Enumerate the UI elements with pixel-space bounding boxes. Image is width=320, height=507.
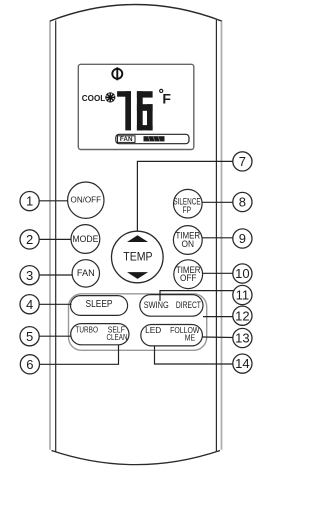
remote bottom arc — [52, 451, 221, 465]
svg-text:8: 8 — [239, 195, 246, 210]
svg-text:12: 12 — [235, 308, 249, 323]
svg-text:10: 10 — [235, 266, 249, 281]
svg-text:1: 1 — [26, 194, 33, 209]
callout line 14 — [155, 346, 233, 364]
svg-text:OFF: OFF — [180, 273, 197, 284]
button FAN — [72, 260, 99, 287]
button TIMER ON — [173, 226, 202, 255]
remote body outer gray outline — [50, 20, 222, 450]
svg-text:SLEEP: SLEEP — [86, 299, 113, 310]
svg-text:ON: ON — [182, 239, 195, 250]
callout circle 7 — [233, 152, 252, 171]
callout line 3 — [39, 274, 72, 276]
callout line 4 — [39, 303, 71, 305]
seven-segment digit 6 — [137, 91, 153, 130]
callout circle 1 — [20, 192, 39, 211]
degree F unit — [160, 89, 172, 106]
svg-text:F: F — [162, 91, 171, 107]
remote top arc — [50, 5, 222, 22]
callout circle 14 — [233, 354, 252, 373]
svg-text:5: 5 — [26, 329, 33, 344]
svg-text:TURBO: TURBO — [75, 325, 98, 335]
button SILENCE FP — [173, 189, 202, 218]
button TEMP — [112, 231, 164, 283]
svg-text:MODE: MODE — [72, 234, 98, 244]
svg-text:9: 9 — [239, 231, 246, 246]
power icon — [112, 67, 122, 80]
svg-text:11: 11 — [236, 288, 250, 303]
svg-text:14: 14 — [235, 356, 249, 371]
callout line 6 — [39, 345, 118, 364]
callout circle 3 — [20, 266, 39, 285]
button SWING DIRECT — [140, 295, 203, 317]
button LED / FOLLOW ME — [141, 325, 203, 346]
svg-text:FAN: FAN — [77, 268, 95, 278]
callout circle 11 — [233, 285, 252, 304]
lower buttons panel outline — [69, 294, 207, 351]
snowflake icon — [106, 93, 116, 103]
callout line 8 — [202, 201, 233, 203]
callout circle 9 — [233, 229, 252, 248]
svg-text:SWING: SWING — [144, 300, 169, 310]
callout line 12 — [203, 316, 233, 318]
svg-text:ON/OFF: ON/OFF — [71, 195, 102, 205]
svg-text:2: 2 — [26, 232, 33, 247]
seven-segment digit 7 — [117, 91, 131, 130]
svg-text:3: 3 — [26, 268, 33, 283]
callout circle 6 — [20, 355, 39, 374]
callout line 11 — [160, 291, 234, 301]
svg-text:DIRECT: DIRECT — [176, 300, 201, 310]
callout line 1 — [39, 200, 68, 202]
svg-text:13: 13 — [235, 331, 249, 346]
svg-text:FP: FP — [183, 205, 192, 215]
callout line 13 — [202, 336, 233, 339]
callout circle 13 — [233, 328, 252, 347]
LCD display frame — [78, 64, 194, 149]
callout circle 8 — [233, 192, 252, 211]
svg-text:TEMP: TEMP — [123, 250, 152, 264]
callout circle 4 — [20, 295, 39, 314]
svg-text:ME: ME — [185, 333, 196, 343]
svg-text:LED: LED — [145, 325, 161, 335]
svg-text:FAN: FAN — [120, 136, 133, 143]
callout line 2 — [39, 238, 71, 240]
svg-text:4: 4 — [26, 297, 33, 312]
callout circle 5 — [20, 327, 39, 346]
svg-text:6: 6 — [26, 357, 33, 372]
button SLEEP — [71, 296, 128, 316]
button TURBO / SELF CLEAN — [71, 324, 129, 345]
button MODE — [71, 225, 100, 254]
svg-text:7: 7 — [239, 154, 246, 169]
callout circle 12 — [233, 306, 252, 325]
remote body inner black outline — [56, 20, 217, 452]
callout line 7 — [137, 161, 232, 231]
callout line 10 — [203, 272, 233, 274]
svg-text:CLEAN: CLEAN — [107, 332, 128, 342]
button TIMER OFF — [174, 260, 203, 289]
callout circle 2 — [20, 230, 39, 249]
callout circle 10 — [233, 264, 252, 283]
callout line 9 — [202, 237, 233, 239]
svg-text:COOL: COOL — [82, 94, 106, 103]
button ON/OFF — [68, 182, 104, 218]
callout line 5 — [39, 335, 71, 337]
fan speed indicator bar — [116, 134, 189, 143]
